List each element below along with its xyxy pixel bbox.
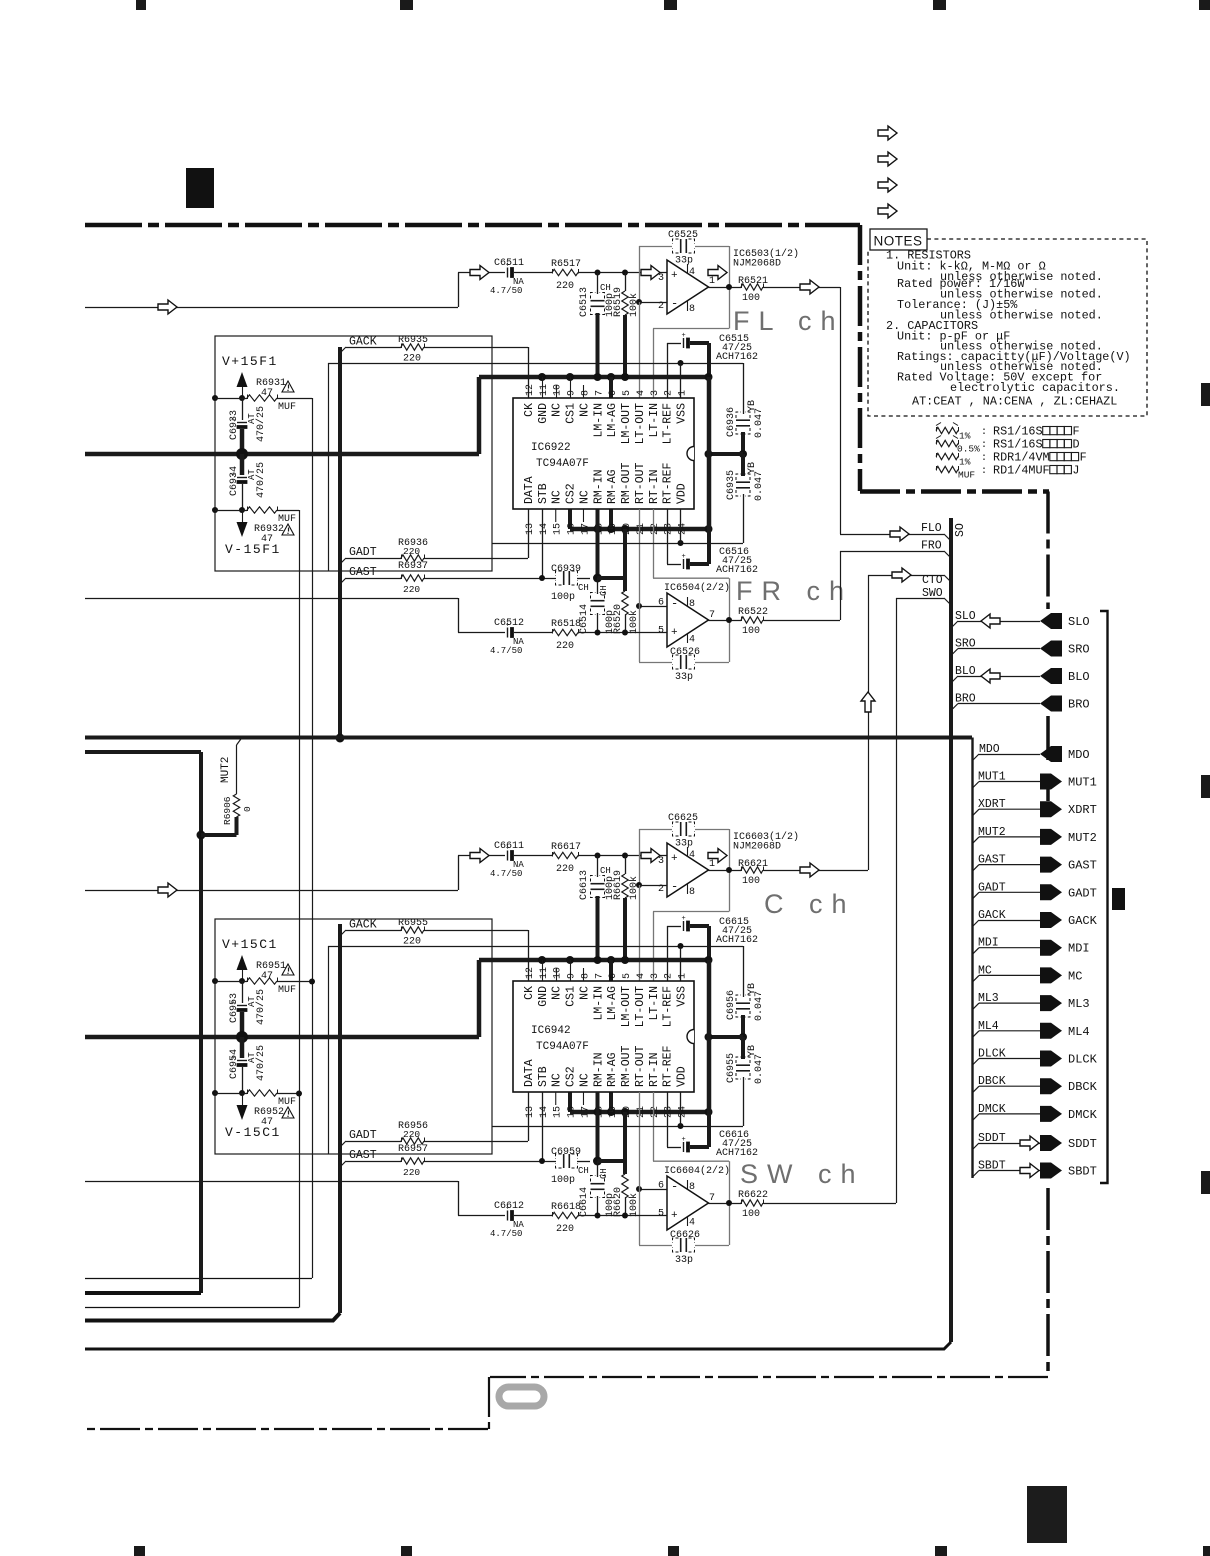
svg-text:C6935: C6935 <box>726 470 737 500</box>
svg-text:33p: 33p <box>675 839 693 850</box>
net BRO row <box>951 704 958 711</box>
wire VDD net IC6942 <box>492 1126 743 1128</box>
resistor R6620 100k <box>623 1112 627 1174</box>
svg-text::: : <box>981 466 987 477</box>
svg-text:LT-IN: LT-IN <box>648 403 661 438</box>
sheet boundary dash-dot right of circuit / notes column <box>858 225 863 491</box>
wire pin4 to minus node IC6922 <box>639 302 641 398</box>
net GACK wire R6955 220 <box>340 930 346 936</box>
wire input C from left edge <box>85 890 458 892</box>
decoupling caps C6956 C6955 0.047 YB <box>743 946 745 997</box>
svg-text:MC: MC <box>978 964 992 977</box>
svg-text:CK: CK <box>523 986 536 1000</box>
svg-text:2: 2 <box>664 390 675 396</box>
thick bus VSS above IC6922 <box>479 375 709 380</box>
svg-text:FRO: FRO <box>921 540 942 553</box>
svg-text:33p: 33p <box>675 1255 693 1266</box>
NOTES title box <box>870 229 927 250</box>
svg-text:1: 1 <box>709 859 715 870</box>
svg-text:3: 3 <box>658 856 664 867</box>
svg-text:D: D <box>1073 438 1080 452</box>
arrow up V+15C1 <box>237 955 248 970</box>
black square right of GADT connector <box>1112 888 1125 910</box>
svg-text:C ch: C ch <box>764 889 856 919</box>
bracket right of connector list <box>1100 611 1108 1183</box>
pin18 RM-IN thick column IC6922 <box>596 509 600 578</box>
svg-text:DMCK: DMCK <box>978 1103 1006 1116</box>
svg-text:7: 7 <box>594 390 605 396</box>
svg-text:NC: NC <box>578 1073 591 1087</box>
net ML3 row <box>972 1003 979 1010</box>
net DMCK row <box>972 1114 979 1121</box>
capacitor C6615 47/25 ACH7162 <box>667 926 681 928</box>
svg-text:0.5%: 0.5% <box>957 444 980 455</box>
resistor R6932 47 MUF <box>212 507 218 513</box>
svg-text:470/25: 470/25 <box>255 406 267 442</box>
svg-text:ML3: ML3 <box>978 992 999 1005</box>
capacitor C6614 100p CH <box>597 1161 599 1177</box>
svg-text:R6622: R6622 <box>738 1190 768 1201</box>
svg-text:NJM2068D: NJM2068D <box>733 842 781 853</box>
capacitor C6626 33p <box>680 1238 682 1252</box>
svg-text:100: 100 <box>742 626 760 637</box>
svg-text:13: 13 <box>525 523 536 535</box>
IC IC6922 TC94A07F <box>513 398 694 509</box>
arrow output C <box>708 849 727 863</box>
thick bus VDD below IC6922 <box>570 527 709 532</box>
svg-text:C6956: C6956 <box>726 990 737 1020</box>
svg-text:DLCK: DLCK <box>978 1048 1006 1061</box>
svg-text:LM-AG: LM-AG <box>606 403 619 438</box>
svg-text:RM-AG: RM-AG <box>606 1052 619 1087</box>
svg-text:0.047: 0.047 <box>754 471 765 501</box>
svg-text:C6934: C6934 <box>229 466 240 496</box>
resistor R6952 47 MUF <box>212 1090 218 1096</box>
svg-text:FL ch: FL ch <box>733 306 845 336</box>
NC pin stubs <box>556 385 558 398</box>
svg-text:SO: SO <box>954 523 967 537</box>
registration marks top edge <box>136 0 146 10</box>
svg-text:8: 8 <box>689 599 695 610</box>
svg-text:GAST: GAST <box>978 854 1006 867</box>
svg-text:NC: NC <box>578 403 591 417</box>
svg-text:VSS: VSS <box>676 986 689 1007</box>
svg-text:15: 15 <box>553 1106 564 1118</box>
svg-text:RT-IN: RT-IN <box>648 469 661 504</box>
capacitor C6616 47/25 ACH7162 <box>667 1147 681 1149</box>
capacitor C6954 470/25 AT <box>240 1037 245 1058</box>
svg-text:220: 220 <box>556 281 574 292</box>
svg-text:3: 3 <box>658 273 664 284</box>
svg-text:RT-OUT: RT-OUT <box>634 462 647 504</box>
svg-text:3: 3 <box>650 973 661 979</box>
svg-text:0: 0 <box>242 806 253 812</box>
capacitor C6516 47/25 ACH7162 <box>667 564 681 566</box>
svg-text:5: 5 <box>658 1209 664 1220</box>
svg-text:+: + <box>671 270 678 282</box>
svg-text:NC: NC <box>551 986 564 1000</box>
svg-text:470/25: 470/25 <box>255 462 267 498</box>
svg-text:+: + <box>682 1136 686 1144</box>
svg-text:R6518: R6518 <box>551 619 581 630</box>
svg-text:1%: 1% <box>959 431 971 442</box>
svg-text:RT-OUT: RT-OUT <box>634 1045 647 1087</box>
svg-text:220: 220 <box>403 584 420 595</box>
feedback wires IC6504(2/2) <box>639 606 667 608</box>
black index rectangle bottom right <box>1027 1486 1067 1543</box>
svg-text:LT-IN: LT-IN <box>648 986 661 1021</box>
svg-text:V-15F1: V-15F1 <box>225 542 281 557</box>
svg-text:LT-OUT: LT-OUT <box>634 403 647 445</box>
svg-text:C6953: C6953 <box>229 993 240 1023</box>
svg-text::: : <box>981 427 987 438</box>
svg-text:MUT1: MUT1 <box>1068 776 1097 790</box>
thick bus VDD below IC6942 <box>570 1110 709 1115</box>
svg-text:STB: STB <box>537 1066 550 1087</box>
svg-text:C6525: C6525 <box>668 230 698 241</box>
svg-text:47: 47 <box>261 971 273 982</box>
thick wire left y=752 to R6906 junction <box>85 750 201 754</box>
svg-text:DMCK: DMCK <box>1068 1108 1098 1122</box>
svg-text:23: 23 <box>664 1106 675 1118</box>
input wire SW <box>85 1181 458 1183</box>
svg-text:LM-AG: LM-AG <box>606 986 619 1021</box>
net CTO wire from C ch output <box>764 870 869 872</box>
svg-text:BLO: BLO <box>1068 670 1090 684</box>
wire pin3 LT feedback IC6942 <box>653 912 655 982</box>
svg-text:SLO: SLO <box>955 610 976 623</box>
resistor R6931 47 MUF <box>212 395 218 401</box>
svg-text:+: + <box>682 332 686 340</box>
wire VDD net IC6922 <box>492 543 743 545</box>
arrow into op-amp + FL <box>641 266 660 280</box>
wire MUF from R6932 down to R6952 line <box>299 510 301 1308</box>
svg-text:8: 8 <box>580 973 591 979</box>
svg-text:470/25: 470/25 <box>255 989 267 1025</box>
op-amp IC6603(1/2) NJM2068D <box>667 843 709 897</box>
feedback wires IC6503(1/2) <box>639 246 672 248</box>
svg-text:220: 220 <box>403 1129 420 1140</box>
svg-text:NC: NC <box>578 986 591 1000</box>
NOTES dashed frame <box>868 239 1147 416</box>
capacitor C6512 4.7/50 NA <box>507 628 509 638</box>
svg-text:24: 24 <box>678 523 689 535</box>
svg-text:CH: CH <box>599 585 609 596</box>
svg-text:LM-IN: LM-IN <box>592 403 605 438</box>
svg-text:ACH7162: ACH7162 <box>716 352 758 363</box>
svg-text:MUT2: MUT2 <box>978 826 1006 839</box>
svg-text:IC6604(2/2): IC6604(2/2) <box>664 1165 730 1177</box>
net DLCK row <box>972 1059 979 1066</box>
output wire FR <box>709 620 742 622</box>
svg-text:R6620: R6620 <box>613 1187 624 1217</box>
net MUT2 row <box>972 837 979 844</box>
svg-text:DBCK: DBCK <box>978 1075 1006 1088</box>
svg-text:220: 220 <box>403 354 421 365</box>
capacitor C6613 100p CH <box>597 856 599 878</box>
svg-text:100k: 100k <box>628 1193 640 1217</box>
svg-text:NC: NC <box>551 1073 564 1087</box>
svg-text:+: + <box>671 627 678 639</box>
svg-text:MUF: MUF <box>958 470 975 481</box>
svg-text:BRO: BRO <box>955 693 976 706</box>
svg-text:C6613: C6613 <box>579 870 590 900</box>
svg-text:MUT1: MUT1 <box>978 771 1006 784</box>
svg-text:17: 17 <box>580 523 591 535</box>
net ML4 row <box>972 1031 979 1038</box>
net SLO row <box>951 621 958 628</box>
svg-text:6: 6 <box>608 973 619 979</box>
svg-text:C6612: C6612 <box>494 1201 524 1212</box>
svg-text:14: 14 <box>539 523 550 535</box>
svg-text:33p: 33p <box>675 256 693 267</box>
svg-text:5: 5 <box>622 973 633 979</box>
svg-text:CS1: CS1 <box>565 403 578 424</box>
svg-text:SRO: SRO <box>955 638 976 651</box>
svg-text:SW ch: SW ch <box>740 1159 865 1189</box>
thick supply wire from left edge <box>477 960 482 1037</box>
resistor R6619 100k <box>625 856 627 875</box>
svg-text:R6517: R6517 <box>551 259 581 270</box>
capacitor C6514 100p CH <box>597 578 599 594</box>
grey pill marker <box>499 1387 544 1406</box>
net SWO wire from SW ch output <box>764 1203 897 1205</box>
svg-text:FLO: FLO <box>921 522 942 535</box>
svg-text::: : <box>981 440 987 451</box>
svg-text:220: 220 <box>403 1167 420 1178</box>
svg-text:XDRT: XDRT <box>1068 803 1097 817</box>
svg-text:GAST: GAST <box>349 566 377 579</box>
svg-text:AT:CEAT , NA:CENA , ZL:CEHAZL: AT:CEAT , NA:CENA , ZL:CEHAZL <box>912 395 1117 409</box>
net GAST wire R6937 220 <box>340 578 346 584</box>
svg-text:100k: 100k <box>628 293 640 317</box>
net GAST wire R6957 220 <box>340 1161 346 1167</box>
svg-text:CK: CK <box>523 403 536 417</box>
svg-text:CH: CH <box>600 866 611 876</box>
svg-text:1: 1 <box>678 973 689 979</box>
capacitor C6612 4.7/50 NA <box>507 1211 509 1221</box>
svg-text:220: 220 <box>556 641 574 652</box>
svg-text:19: 19 <box>608 1106 619 1118</box>
resistor R6517 220 <box>552 269 578 275</box>
svg-text:V-15C1: V-15C1 <box>225 1125 281 1140</box>
svg-text:4.7/50: 4.7/50 <box>490 1229 522 1239</box>
svg-text:1: 1 <box>678 390 689 396</box>
svg-text:22: 22 <box>650 1106 661 1118</box>
svg-text:ML3: ML3 <box>1068 997 1090 1011</box>
svg-text:21: 21 <box>636 523 647 535</box>
svg-text:GAST: GAST <box>1068 859 1097 873</box>
net GACK row <box>972 920 979 927</box>
svg-text:14: 14 <box>539 1106 550 1118</box>
arrow up V+15F1 <box>237 372 248 387</box>
svg-text:CH: CH <box>578 583 589 593</box>
svg-text:RDR1/4VM: RDR1/4VM <box>993 451 1050 465</box>
net MDI row <box>972 948 979 955</box>
net FLO wire <box>764 287 841 289</box>
svg-text:4: 4 <box>689 267 695 278</box>
svg-text:RM-AG: RM-AG <box>606 469 619 504</box>
svg-text:CH: CH <box>600 283 611 293</box>
svg-text:STB: STB <box>537 483 550 504</box>
svg-text:5: 5 <box>622 390 633 396</box>
svg-text:1%: 1% <box>959 457 971 468</box>
output wire SW <box>709 1203 742 1205</box>
svg-text:0.047: 0.047 <box>754 1054 765 1084</box>
svg-text:8: 8 <box>689 304 695 315</box>
svg-text:C6511: C6511 <box>494 258 524 269</box>
svg-text:4: 4 <box>636 973 647 979</box>
wire MUF from R6931 down to R6951 line <box>312 398 314 1278</box>
svg-text:11: 11 <box>539 384 550 396</box>
op-amp IC6604(2/2) <box>667 1176 709 1230</box>
svg-text:R6935: R6935 <box>398 335 428 346</box>
svg-text:470/25: 470/25 <box>255 1045 267 1081</box>
svg-text:2: 2 <box>664 973 675 979</box>
svg-text:TC94A07F: TC94A07F <box>536 458 589 470</box>
svg-text:RT-REF: RT-REF <box>662 1045 675 1087</box>
svg-text:NC: NC <box>578 490 591 504</box>
capacitor C6959 100p <box>563 1154 565 1168</box>
svg-text:RS1/16S: RS1/16S <box>993 438 1043 452</box>
svg-text:MDO: MDO <box>979 743 1000 756</box>
svg-text:GADT: GADT <box>349 546 377 559</box>
svg-text:RM-IN: RM-IN <box>592 469 605 504</box>
svg-text:12: 12 <box>525 967 536 979</box>
svg-text:220: 220 <box>403 546 420 557</box>
GACK trunk vertical top half <box>338 347 342 738</box>
svg-text:10: 10 <box>553 384 564 396</box>
capacitor C6525 33p feedback <box>680 239 682 253</box>
arrow before C6511 <box>470 266 489 280</box>
output wire C <box>709 870 742 872</box>
arrow input FL <box>158 300 177 314</box>
shield box V+15C1 <box>215 919 492 1154</box>
legend resistor types <box>936 427 958 433</box>
wire pin2 LT-REF IC6922 <box>667 343 669 398</box>
svg-text:24: 24 <box>678 1106 689 1118</box>
svg-text:-: - <box>671 297 678 311</box>
svg-text:R6957: R6957 <box>398 1144 428 1155</box>
arrow before C6611 <box>470 849 489 863</box>
op-amp IC6503(1/2) NJM2068D <box>667 260 709 314</box>
svg-text:R6937: R6937 <box>398 561 428 572</box>
output wire FL <box>709 287 742 289</box>
svg-text:DATA: DATA <box>523 476 536 504</box>
svg-text:MUF: MUF <box>278 985 296 996</box>
resistor R6521 100 <box>741 284 763 290</box>
svg-text:GND: GND <box>537 403 550 424</box>
svg-text:9: 9 <box>567 390 578 396</box>
feedback wires IC6603(1/2) <box>639 829 672 831</box>
svg-text:100k: 100k <box>628 610 640 634</box>
svg-text:GND: GND <box>537 986 550 1007</box>
svg-text:8: 8 <box>580 390 591 396</box>
svg-text:3: 3 <box>650 390 661 396</box>
IC IC6942 TC94A07F <box>513 981 694 1092</box>
svg-text:MC: MC <box>1068 969 1082 983</box>
wire VSS net IC6922 <box>328 363 743 365</box>
svg-text:MDI: MDI <box>1068 942 1090 956</box>
svg-text:GADT: GADT <box>1068 886 1097 900</box>
net MC row <box>972 975 979 982</box>
svg-text:RM-IN: RM-IN <box>592 1052 605 1087</box>
svg-text:R6621: R6621 <box>738 859 768 870</box>
svg-text:NOTES: NOTES <box>874 234 923 249</box>
net GAST row <box>972 865 979 872</box>
svg-text:17: 17 <box>580 1106 591 1118</box>
net GADT wire R6936 220 <box>340 558 346 564</box>
net GADT row <box>972 892 979 899</box>
svg-text:C6611: C6611 <box>494 841 524 852</box>
svg-text:TC94A07F: TC94A07F <box>536 1041 589 1053</box>
svg-text:220: 220 <box>403 937 421 948</box>
svg-text:1: 1 <box>709 276 715 287</box>
svg-text:VDD: VDD <box>676 1066 689 1087</box>
svg-text:11: 11 <box>539 967 550 979</box>
svg-text:100: 100 <box>742 876 760 887</box>
svg-text:V+15C1: V+15C1 <box>222 937 278 952</box>
svg-text:LM-IN: LM-IN <box>592 986 605 1021</box>
svg-text:MUT2: MUT2 <box>220 757 232 783</box>
MUT2 elbow down right column <box>971 738 973 1179</box>
capacitor C6526 33p <box>680 655 682 669</box>
svg-text:23: 23 <box>664 523 675 535</box>
net GADT wire R6956 220 <box>340 1141 346 1147</box>
svg-text:13: 13 <box>525 1106 536 1118</box>
svg-text:4: 4 <box>689 1218 695 1229</box>
svg-text:21: 21 <box>636 1106 647 1118</box>
resistor R6519 100k <box>625 273 627 292</box>
wire pin2 LT-REF IC6942 <box>667 926 669 981</box>
resistor R6951 47 MUF <box>212 978 218 984</box>
svg-text:C6959: C6959 <box>551 1147 581 1158</box>
svg-text:R6519: R6519 <box>613 287 624 317</box>
svg-text:IC6504(2/2): IC6504(2/2) <box>664 582 730 594</box>
svg-text:MDI: MDI <box>978 937 999 950</box>
thick bus VSS above IC6942 <box>479 958 709 963</box>
svg-text:MUF: MUF <box>278 402 296 413</box>
svg-text:VDD: VDD <box>676 483 689 504</box>
svg-text:22: 22 <box>650 523 661 535</box>
svg-text:C6936: C6936 <box>726 407 737 437</box>
svg-text:DATA: DATA <box>523 1059 536 1087</box>
resistor R6621 100 <box>741 867 763 873</box>
svg-text:R6617: R6617 <box>551 842 581 853</box>
net SRO row <box>951 649 958 656</box>
wire pin3 LT feedback IC6922 <box>653 329 655 399</box>
feedback wires IC6604(2/2) <box>639 1189 667 1191</box>
net FRO wire <box>764 620 841 622</box>
svg-text:SBDT: SBDT <box>1068 1165 1097 1179</box>
resistor R6906 0 MUT2 branch <box>197 831 206 840</box>
svg-text:V+15F1: V+15F1 <box>222 354 278 369</box>
svg-text:NC: NC <box>551 490 564 504</box>
resistor R6618 220 <box>514 1215 552 1217</box>
svg-text:C6513: C6513 <box>579 287 590 317</box>
svg-text:SDDT: SDDT <box>1068 1137 1097 1151</box>
thick junction mid supply <box>236 448 248 460</box>
svg-text:ACH7162: ACH7162 <box>716 565 758 576</box>
svg-text:GADT: GADT <box>349 1129 377 1142</box>
svg-text:ACH7162: ACH7162 <box>716 1148 758 1159</box>
svg-text:ML4: ML4 <box>1068 1025 1090 1039</box>
resistor R6617 220 <box>552 852 578 858</box>
arrow down V-15C1 <box>242 1093 244 1105</box>
net MDO row <box>972 754 979 761</box>
svg-text:LT-REF: LT-REF <box>662 403 675 445</box>
sheet boundary dash-dot bottom <box>490 1376 1048 1378</box>
